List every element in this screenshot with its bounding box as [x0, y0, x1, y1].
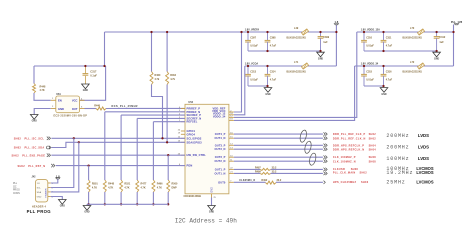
junction R466 gnd tap: [152, 203, 154, 205]
junction R448 gnd tap: [104, 203, 106, 205]
svg-text:I2C Address = 49h: I2C Address = 49h: [175, 217, 238, 224]
svg-text:DCS_PLL_25MHZ: DCS_PLL_25MHZ: [112, 105, 138, 108]
svg-text:GND: GND: [83, 90, 88, 92]
pin U52 pin 18 VDDO_34: [229, 119, 234, 121]
wire CLKUSR wire: [271, 168, 323, 170]
wire C398 stem2: [267, 42, 269, 51]
capacitor C310: [361, 39, 367, 41]
svg-text:CLKUSR: CLKUSR: [333, 168, 345, 171]
svg-text:GND: GND: [381, 94, 386, 96]
wire OUT0 wire a: [234, 181, 266, 183]
wire C316 stem2: [383, 76, 385, 86]
resistor R501 4.7K: [87, 180, 90, 192]
svg-text:1.8V_VREFA: 1.8V_VREFA: [245, 29, 260, 32]
svg-text:200MHz: 200MHz: [386, 133, 409, 139]
svg-text:C399: C399: [323, 36, 329, 39]
svg-text:100MHz: 100MHz: [386, 156, 409, 162]
pin U52 pin 12 VDDO_12: [229, 116, 234, 118]
wire C311 stem: [383, 32, 385, 40]
svg-text:GND: GND: [434, 58, 439, 60]
svg-text:SDA/GPIO3: SDA/GPIO3: [187, 140, 203, 144]
svg-text:U61: U61: [56, 93, 61, 96]
ferrite bead L72 BLM15AG221SN1: [418, 63, 425, 69]
svg-text:ECS-2520MV-250-BN-DP: ECS-2520MV-250-BN-DP: [54, 115, 88, 118]
svg-text:GND: GND: [265, 94, 270, 96]
pin J42 pin 2: [48, 187, 51, 189]
junction C397 tap: [247, 31, 249, 33]
svg-text:33.2: 33.2: [272, 171, 277, 174]
wire R477 lower: [136, 192, 138, 204]
svg-text:200MHz: 200MHz: [386, 144, 409, 150]
junction C312 tap: [435, 31, 437, 33]
capacitor C317 0.1uF: [83, 73, 89, 75]
svg-text:C310: C310: [366, 36, 372, 39]
off-page connector SDA entry: [49, 146, 51, 149]
svg-text:33.2: 33.2: [272, 167, 277, 170]
svg-text:4.7uF: 4.7uF: [386, 78, 393, 81]
pin U1 pin 2 GND: [51, 108, 56, 110]
pin U52 pin 3 SECREF_N: [181, 117, 185, 119]
wire HW_SW strap vert: [167, 155, 169, 180]
svg-text:GND: GND: [209, 212, 214, 214]
ferrite bead L49 BLM15AG221SN1: [302, 29, 309, 35]
svg-text:4.7uF: 4.7uF: [386, 44, 393, 47]
svg-text:GPIO4: GPIO4: [187, 132, 196, 136]
svg-text:SH04: SH04: [369, 149, 377, 152]
wire filter ground bus: [364, 85, 384, 87]
pin U52 pin 14 OUT3_P: [229, 144, 234, 146]
pin U1 pin 4 VCC: [80, 99, 85, 101]
wire R460 to SCL: [152, 85, 163, 139]
svg-text:R464: R464: [170, 74, 176, 77]
oscillator U61 ECS-2520MV: [56, 96, 80, 113]
wire C314 stem2: [267, 76, 269, 86]
off-page connector SDA bubble: [47, 146, 50, 149]
junction R500 gnd tap: [167, 203, 169, 205]
capacitor C399: [318, 36, 324, 38]
svg-text:VDDO_34: VDDO_34: [213, 115, 226, 119]
svg-text:0.01uF: 0.01uF: [250, 78, 258, 81]
wire C313 stem: [247, 66, 249, 74]
svg-text:OUT3_P: OUT3_P: [215, 143, 226, 147]
svg-text:C312: C312: [439, 36, 445, 39]
wire PLL_1V8 riser: [453, 25, 455, 67]
svg-text:0.1uF: 0.1uF: [90, 73, 97, 77]
wire C311 stem2: [383, 42, 385, 51]
svg-text:DDR_HPS_REFCLK_N: DDR_HPS_REFCLK_N: [333, 149, 364, 152]
wire PRIREF_N strap vert: [104, 112, 106, 180]
junction C398 tap: [266, 31, 268, 33]
capacitor C315: [361, 73, 367, 75]
wire OUT1_N wire a: [234, 172, 260, 174]
resistor R497 33.2: [260, 168, 271, 170]
svg-text:REFSEL: REFSEL: [187, 120, 198, 124]
svg-text:SH08: SH08: [351, 168, 359, 171]
wire CLK_100MHZ_P wire: [234, 156, 323, 158]
ground 1.8V_VREFA GND: [317, 52, 325, 57]
resistor R466 4.7K: [152, 180, 155, 192]
pin U52 pin 22 OUT1_P: [229, 168, 234, 170]
svg-text:R448: R448: [108, 183, 114, 186]
junction C310 tap: [363, 31, 365, 33]
junction R477 gnd tap: [136, 203, 138, 205]
wire J42 pin3 to SDA: [51, 142, 79, 192]
wire R466 lower: [152, 192, 154, 204]
wire RST strap vert: [88, 166, 90, 180]
svg-text:L49: L49: [294, 27, 299, 30]
wire VDDO_34 feed: [234, 66, 355, 120]
diff pair bubble DDR_HPS_REFCLK_P/DDR_HPS_REFCLK_N: [304, 141, 313, 154]
wire C399 stem: [320, 32, 322, 37]
svg-text:25MHz: 25MHz: [386, 180, 405, 186]
ground U52 GND: [208, 206, 216, 211]
ground 1.8V_VDDO_34 GND: [380, 88, 388, 93]
svg-text:C315: C315: [366, 70, 372, 73]
capacitor C314: [265, 73, 271, 75]
wire R521 lower: [120, 192, 122, 204]
off-page connector DDR_HPS_REFCLK_P offpage: [324, 144, 328, 147]
svg-text:BLM15AG221SN1: BLM15AG221SN1: [403, 70, 423, 73]
svg-text:DNP: DNP: [172, 187, 178, 190]
svg-text:0.01uF: 0.01uF: [366, 78, 374, 81]
svg-text:SH02: SH02: [369, 138, 377, 141]
ground 1.8V_VDDO_12A GND: [433, 52, 441, 57]
wire C397 stem2: [247, 42, 249, 51]
junction C399 bus tap: [319, 50, 321, 52]
pin U52 pin 16 OUT4_P: [229, 133, 234, 135]
svg-text:OUT1_P: OUT1_P: [215, 167, 226, 171]
ground bank GND: [83, 206, 91, 211]
svg-text:R521: R521: [124, 183, 130, 186]
svg-text:GND: GND: [37, 197, 42, 199]
wire J42 pin4 to GND: [51, 197, 63, 200]
pin U52 pin 25 DAP: [211, 194, 213, 198]
off-page connector PAGE entry: [47, 154, 51, 157]
pin U52 pin 15 OUT4_N: [229, 137, 234, 139]
svg-text:LVCMOS: LVCMOS: [416, 170, 433, 175]
svg-text:C314: C314: [270, 70, 276, 73]
junction C312 bus tap: [435, 50, 437, 52]
junction C311 tap: [382, 31, 384, 33]
svg-text:U52: U52: [188, 101, 193, 104]
pin U1 pin 3 OUT: [80, 108, 85, 110]
svg-text:CDCE6214RGE: CDCE6214RGE: [184, 195, 202, 198]
wire R500 lower: [167, 192, 169, 204]
resistor R460 4.7k: [150, 72, 153, 85]
svg-text:R500: R500: [172, 183, 178, 186]
junction C317 tap: [84, 65, 86, 67]
wire C317 stem top: [84, 66, 86, 74]
off-page connector DDR_HPS_REFCLK_N offpage: [324, 148, 328, 151]
svg-text:BLM15AG221SN1: BLM15AG221SN1: [287, 36, 307, 39]
svg-text:4.7K: 4.7K: [108, 187, 113, 190]
svg-text:J42: J42: [32, 176, 37, 179]
wire REFSEL row: [153, 121, 185, 123]
svg-text:SH02: SH02: [12, 155, 20, 158]
off-page connector CLKUSR offpage: [324, 168, 328, 171]
svg-text:4.7k: 4.7k: [155, 78, 160, 81]
svg-text:DDR_PLL_REF_CLK_N: DDR_PLL_REF_CLK_N: [333, 138, 366, 141]
wire U1 gnd wire: [34, 109, 51, 115]
resistor R464 4.7k: [166, 72, 169, 85]
wire C315 stem: [363, 66, 365, 74]
svg-text:4.7uF: 4.7uF: [270, 78, 277, 81]
junction hw_sw strap tap: [167, 154, 169, 156]
svg-text:SH02: SH02: [369, 133, 377, 136]
resistor R448 4.7K: [33, 84, 36, 94]
pin U52 pin 13 SDA/GPIO3: [181, 141, 185, 143]
svg-text:R492: R492: [261, 179, 267, 182]
wire C398 stem: [267, 32, 269, 40]
off-page connector DDR_PLL_REF_CLK_P offpage: [324, 132, 328, 135]
svg-text:1.8V_VCOA: 1.8V_VCOA: [245, 63, 259, 66]
svg-text:PLL_CLK_MAIN: PLL_CLK_MAIN: [333, 172, 356, 175]
svg-text:SH02: SH02: [360, 172, 368, 175]
svg-text:LVCMOS: LVCMOS: [416, 180, 433, 185]
wire 1.8V_VDDO_12A rail: [357, 31, 454, 33]
svg-text:SH08: SH08: [369, 161, 377, 164]
svg-text:C398: C398: [270, 36, 276, 39]
wire PLL_CLK_MAIN wire: [271, 172, 323, 174]
svg-text:0.01uF: 0.01uF: [366, 44, 374, 47]
wire C316 stem: [383, 66, 385, 74]
svg-text:L72: L72: [410, 61, 415, 64]
junction scl pullup tap: [161, 137, 163, 139]
wire DDR_HPS_REFCLK_P wire: [234, 144, 323, 146]
svg-text:GND: GND: [211, 187, 214, 193]
svg-text:4.7k: 4.7k: [170, 78, 175, 81]
wire VDDO_12 feed: [234, 32, 357, 117]
wire OUT to R446: [85, 108, 97, 110]
svg-text:1uF: 1uF: [323, 41, 328, 44]
svg-text:PLL_RST_N: PLL_RST_N: [28, 165, 45, 168]
wire R464 to SDA: [166, 85, 168, 143]
ferrite bead L71 BLM15AG221SN1: [302, 63, 309, 69]
off-page connector CLK_100MHZ_N offpage: [324, 160, 328, 163]
junction C316 bus tap: [382, 85, 384, 87]
junction rail66 riser: [103, 65, 105, 67]
svg-text:OUT4_N: OUT4_N: [215, 136, 226, 140]
svg-text:19.2MHz: 19.2MHz: [386, 170, 413, 176]
svg-text:L70: L70: [410, 27, 415, 30]
junction C315 tap: [363, 65, 365, 67]
junction R521 gnd tap: [120, 203, 122, 205]
off-page connector CLK_100MHZ_P offpage: [324, 156, 328, 159]
svg-text:R460: R460: [155, 74, 161, 77]
pin U52 pin 1 REFSEL: [181, 121, 185, 123]
svg-text:33.2: 33.2: [277, 179, 282, 182]
svg-text:4.7uF: 4.7uF: [270, 44, 277, 47]
wire PLL_RST_N / PDN row: [56, 165, 185, 167]
wire bank gnd stem: [86, 204, 88, 205]
off-page connector PLL_CLK offpage: [324, 172, 328, 175]
svg-text:DDR_PLL_REF_CLK_P: DDR_PLL_REF_CLK_P: [333, 133, 366, 136]
svg-text:OUT: OUT: [72, 107, 78, 111]
wire C399 stem2: [320, 38, 322, 51]
resistor R492 33.2: [266, 181, 277, 184]
svg-text:VCC: VCC: [72, 99, 78, 103]
junction C314 bus tap: [266, 85, 268, 87]
junction sda header tap: [78, 141, 80, 143]
wire C317 stem bot: [84, 76, 86, 84]
pin U52 pin 12 SCL/GPIO2: [181, 137, 185, 139]
wire DDR_HPS_REFCLK_N wire: [234, 148, 323, 150]
junction sda pullup tap: [166, 141, 168, 143]
wire CLK_100MHZ_N wire: [234, 160, 323, 162]
resistor R521 4.7K: [120, 180, 123, 192]
junction C313 tap: [247, 65, 249, 67]
junction PLL_1V8 node: [452, 31, 454, 33]
junction C311 bus tap: [382, 50, 384, 52]
resistor R500 DNP: [167, 180, 170, 192]
ground C317 GND: [82, 84, 90, 89]
diff pair bubble CLK_100MHZ_P/CLK_100MHZ_N: [308, 152, 317, 165]
svg-text:GND: GND: [318, 58, 323, 60]
svg-text:C311: C311: [386, 36, 392, 39]
svg-text:OUT2_P: OUT2_P: [215, 155, 226, 159]
wire R501 lower: [88, 192, 90, 204]
capacitor C311: [381, 39, 387, 41]
svg-text:LVDS: LVDS: [418, 156, 429, 161]
wire C315 stem2: [363, 76, 365, 86]
svg-text:OUT0: OUT0: [218, 180, 226, 184]
pin U52 pin 20 GPIO1: [181, 130, 185, 132]
svg-text:EN: EN: [58, 99, 62, 103]
wire R464 upper: [166, 32, 168, 72]
svg-text:CLK_100MHZ_P: CLK_100MHZ_P: [333, 156, 356, 159]
pin U1 pin 1 EN: [51, 99, 56, 101]
wire 1.8 source riser: [335, 25, 337, 67]
diff pair bubble DDR_PLL_REF_CLK_P/DDR_PLL_REF_CLK_N: [299, 129, 308, 142]
svg-text:PLL_I2C_SCL: PLL_I2C_SCL: [25, 138, 45, 141]
pin U52 pin 19 GPIO4: [181, 133, 185, 135]
junction C399 tap: [319, 31, 321, 33]
wire R448 lower: [104, 192, 106, 204]
wire C310 stem2: [363, 42, 365, 51]
capacitor C316: [381, 73, 387, 75]
wire HPS_CLK25 wire: [276, 181, 323, 183]
svg-text:SH02: SH02: [18, 165, 26, 168]
wire SECREF_N row: [137, 117, 185, 119]
svg-text:LVDS: LVDS: [418, 144, 429, 149]
wire VDD_REF feed: [234, 32, 242, 112]
ground J42 GND: [59, 200, 67, 205]
pin U52 pin 24 VDD_VCO: [229, 114, 234, 116]
wire vcc corner to U1 pin4: [80, 66, 106, 100]
capacitor C312: [434, 36, 440, 38]
resistor R446 33: [96, 107, 106, 110]
capacitor C313: [245, 73, 251, 75]
svg-text:BLM15AG221SN1: BLM15AG221SN1: [287, 70, 307, 73]
svg-text:C316: C316: [386, 70, 392, 73]
pin U52 pin 4 PRIREF_P: [181, 108, 185, 110]
svg-text:PLL PROG: PLL PROG: [27, 209, 52, 214]
wire REFSEL strap vert: [152, 122, 154, 180]
svg-text:HPS_CLK25MHZ: HPS_CLK25MHZ: [333, 181, 357, 184]
wire DDR_PLL_REF_CLK_P wire: [234, 133, 323, 135]
pin U52 pin 2 VDD_REF: [229, 111, 234, 113]
junction vddref tap: [240, 31, 242, 33]
svg-text:CONN: CONN: [13, 193, 20, 195]
wire VDD_VCO feed: [234, 66, 245, 115]
svg-text:CLK25M4_O: CLK25M4_O: [239, 179, 255, 182]
svg-text:SH02: SH02: [14, 147, 22, 150]
svg-text:SH08: SH08: [369, 156, 377, 159]
wire C314 stem: [267, 66, 269, 74]
svg-text:CLK_100MHZ_N: CLK_100MHZ_N: [333, 161, 356, 164]
wire PLL_EN2_PAGE row: [51, 154, 185, 156]
wire DDR_PLL_REF_CLK_N wire: [234, 137, 323, 139]
off-page connector SCL entry: [47, 137, 51, 140]
svg-text:4.7K: 4.7K: [40, 89, 45, 92]
wire J42 pin2 to SCL: [51, 138, 74, 187]
ferrite bead L70 BLM15AG221SN1: [418, 29, 425, 35]
svg-text:DDR_HPS_REFCLK_P: DDR_HPS_REFCLK_P: [333, 144, 364, 147]
pin U52 pin 2 SECREF_P: [181, 114, 185, 116]
svg-text:OUT1_N: OUT1_N: [215, 171, 226, 175]
svg-text:SH03: SH03: [361, 181, 369, 184]
wire PRIREF_N row: [105, 111, 185, 113]
resistor R477 4.7K: [136, 180, 139, 192]
wire filter ground bus: [364, 50, 437, 52]
junction C314 tap: [266, 65, 268, 67]
resistor R499 33.2: [260, 172, 271, 174]
wire SECREF_P strap vert: [120, 115, 122, 180]
svg-text:BLM15AG221SN1: BLM15AG221SN1: [403, 36, 423, 39]
pin U52 pin 23 HW_SW_CTRL: [181, 154, 185, 156]
wire SECREF_P row: [121, 114, 185, 116]
wire C397 stem: [247, 32, 249, 40]
ground 1.8V_VCOA GND: [264, 88, 272, 93]
svg-text:GND: GND: [60, 206, 65, 208]
wire 1.8V_VDDO_34 rail: [355, 65, 454, 67]
wire OUT1_P wire a: [234, 168, 260, 170]
wire bank gnd rail: [87, 203, 168, 205]
resistor R448 4.7K: [103, 180, 106, 192]
off-page connector DDR_PLL_REF_CLK_N offpage: [324, 137, 328, 140]
wire SECREF_N strap vert: [136, 118, 138, 180]
connector J42 HEADER 4: [36, 180, 48, 202]
off-page connector RST entry: [51, 164, 55, 167]
svg-text:4.7K: 4.7K: [92, 187, 97, 190]
svg-text:OUT2_N: OUT2_N: [215, 159, 226, 163]
svg-text:GND: GND: [58, 107, 64, 111]
junction scl header tap: [73, 137, 75, 139]
svg-text:R501: R501: [92, 183, 98, 186]
junction C398 bus tap: [266, 50, 268, 52]
svg-text:GND: GND: [32, 121, 37, 123]
svg-text:L71: L71: [294, 61, 299, 64]
wire J42 pin1 to 1.8: [51, 179, 58, 183]
svg-text:0.01uF: 0.01uF: [250, 44, 258, 47]
svg-text:R466: R466: [157, 183, 163, 186]
svg-text:PDN: PDN: [187, 164, 193, 168]
pin J42 pin 3: [48, 191, 51, 193]
junction rst pulldown tap: [87, 164, 89, 166]
off-page connector HPS_CLK25 offpage: [324, 181, 326, 184]
wire osc vcc rail y66: [34, 65, 106, 67]
wire C312 stem: [436, 32, 438, 37]
pin U52 pin 10 OUT2_P: [229, 156, 234, 158]
svg-text:HEADER: HEADER: [45, 188, 48, 198]
wire DCS_PLL_25MHZ to PRIREF_P: [106, 107, 185, 109]
wire C310 stem: [363, 32, 365, 40]
junction R460 tap: [150, 31, 152, 33]
svg-text:PROG: PROG: [13, 190, 20, 192]
wire PLL_I2C_SDA row: [51, 142, 185, 147]
pin J42 pin 4: [48, 196, 51, 198]
svg-text:C317: C317: [90, 69, 97, 73]
